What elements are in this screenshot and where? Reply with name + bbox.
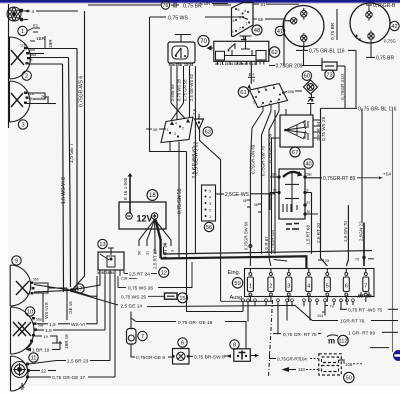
battery <box>119 202 166 229</box>
svg-text:1: 1 <box>167 128 169 132</box>
circled 9 <box>12 256 21 265</box>
svg-text:60: 60 <box>304 74 310 80</box>
svg-text:9: 9 <box>273 84 275 88</box>
wire 0,75GR-GE 8 <box>131 344 135 357</box>
wire 2,50E-WS <box>216 193 225 195</box>
circled 42 <box>390 21 399 30</box>
svg-text:19: 19 <box>44 335 48 339</box>
svg-text:+S4: +S4 <box>383 172 391 177</box>
wire 0,75 GR-RT 75 <box>273 333 281 335</box>
instrument pod left <box>283 6 324 47</box>
feed verticals to fuses <box>312 108 365 266</box>
svg-text:GE 16: GE 16 <box>68 301 73 314</box>
wire 15B <box>282 92 287 94</box>
clock box 67 <box>280 115 313 147</box>
svg-text:3: 3 <box>253 101 255 105</box>
svg-text:18: 18 <box>149 193 156 199</box>
svg-text:4: 4 <box>307 284 310 290</box>
svg-text:5: 5 <box>257 88 259 92</box>
svg-text:1,5 WS-VI 8: 1,5 WS-VI 8 <box>61 177 67 204</box>
svg-text:0,75 GR- GE 16: 0,75 GR- GE 16 <box>178 320 213 326</box>
circled 59 <box>232 278 242 288</box>
lamp 9 terminals <box>31 282 35 295</box>
svg-text:4: 4 <box>175 122 177 126</box>
horn button 63 triangle <box>195 119 204 129</box>
svg-text:1,5: 1,5 <box>49 322 56 328</box>
svg-text:1,0 R 87: 1,0 R 87 <box>264 236 269 253</box>
wire into 76 from left <box>88 4 161 6</box>
svg-text:3: 3 <box>171 250 175 252</box>
svg-text:1,5 GE 7: 1,5 GE 7 <box>69 143 75 163</box>
thick 4RT wire <box>156 220 161 259</box>
svg-text:30 50 15 54: 30 50 15 54 <box>97 271 114 275</box>
svg-text:2,5 RT 20: 2,5 RT 20 <box>316 223 321 243</box>
svg-text:0,75 GN 58: 0,75 GN 58 <box>183 79 188 101</box>
wire 1,0 R 87 <box>269 111 279 266</box>
svg-text:0,75GR-B: 0,75GR-B <box>373 3 396 9</box>
wire 63 down to connector <box>200 129 221 301</box>
section divider dash-dot <box>269 300 273 377</box>
battery plus fan wires <box>139 220 171 247</box>
svg-text:1: 1 <box>249 284 252 290</box>
fusebox output drops <box>243 302 353 334</box>
svg-text:4: 4 <box>209 196 211 200</box>
circled 50 <box>344 372 354 382</box>
svg-text:70: 70 <box>200 38 207 45</box>
wire horn pin to right <box>24 10 31 12</box>
svg-text:0,75 GR-BL 116: 0,75 GR-BL 116 <box>309 49 345 55</box>
svg-text:13: 13 <box>99 242 105 248</box>
wire 0,75GR 210 <box>344 70 346 108</box>
wire 1,5 BR 23 <box>29 361 66 365</box>
circled 10 <box>25 307 34 316</box>
lamp 11 (license plate light) <box>11 356 29 391</box>
circle 76 connector <box>161 1 169 9</box>
svg-text:1,5 RT 68: 1,5 RT 68 <box>306 225 311 245</box>
svg-text:2: 2 <box>239 27 241 31</box>
numbered circle 3 <box>18 120 27 129</box>
svg-text:31: 31 <box>146 251 150 255</box>
arrow right of box 8 <box>250 355 256 357</box>
verticals from box 13 down to rear lamps <box>72 276 115 377</box>
svg-text:2,5 GN 70: 2,5 GN 70 <box>343 221 348 242</box>
bulb bottom <box>301 33 307 44</box>
battery minus terminal <box>126 213 132 219</box>
svg-text:0,75 GR- RT 75: 0,75 GR- RT 75 <box>283 332 317 338</box>
circled 67 <box>290 147 300 157</box>
lamp 9 (tail light) <box>10 265 31 306</box>
svg-text:0,75GR-GN: 0,75GR-GN <box>270 230 275 252</box>
wire 1BR 18 <box>35 336 62 343</box>
wire 0,75 GR-BL 116 under pods <box>303 44 305 50</box>
svg-text:0,75GR 210: 0,75GR 210 <box>340 74 346 100</box>
svg-text:58: 58 <box>153 127 158 132</box>
svg-text:7: 7 <box>141 334 144 340</box>
svg-text:2: 2 <box>25 74 28 80</box>
fuse 6 <box>343 268 349 302</box>
wire to +S4 <box>357 177 381 179</box>
wire 2,5 RT 24 to circled 12 <box>123 270 125 274</box>
box 67 top stubs <box>286 99 315 116</box>
wire GR-ON 69 from 61 to fuse 1 <box>250 111 263 266</box>
circled 40 <box>304 159 313 168</box>
svg-text:42: 42 <box>391 24 397 30</box>
circled 48 <box>252 25 262 35</box>
wire 79/104 bracket <box>322 302 328 316</box>
wire 0,75GR-RT 89 <box>305 177 322 179</box>
numbered circle 2 <box>22 71 31 80</box>
svg-text:0,75 BR-SW 8: 0,75 BR-SW 8 <box>194 355 225 361</box>
svg-text:12B: 12B <box>20 44 27 48</box>
svg-text:1GR-RT 76: 1GR-RT 76 <box>340 319 365 325</box>
svg-text:0,75GR-GE 8: 0,75GR-GE 8 <box>136 355 165 361</box>
svg-text:8: 8 <box>233 342 236 348</box>
wire 0,75 BR bottom right pod <box>370 42 372 57</box>
label 0,75 BR vertical between pods <box>336 9 338 40</box>
svg-text:61: 61 <box>240 90 246 96</box>
wire 1,5 <box>37 329 44 331</box>
svg-text:11: 11 <box>31 355 37 361</box>
wire 0,75 GR-BL 116 lower <box>321 107 358 109</box>
svg-text:1,5: 1,5 <box>45 328 52 334</box>
svg-text:50: 50 <box>346 376 352 382</box>
wires lamp3 pins <box>27 93 56 104</box>
lamp 10 terminals <box>30 317 37 342</box>
svg-text:2,5GE-WS: 2,5GE-WS <box>225 192 250 198</box>
numbered circle 1 <box>18 26 27 35</box>
svg-text:0,75GR-BL 88: 0,75GR-BL 88 <box>268 133 273 163</box>
fuse 3 <box>286 268 292 302</box>
instrument pod right <box>350 3 390 43</box>
svg-text:2Na: 2Na <box>41 95 47 99</box>
svg-text:2,5 GE 14: 2,5 GE 14 <box>121 303 143 309</box>
svg-text:30 1 L 15 54 31 49a 49 R L/E: 30 1 L 15 54 31 49a 49 R L/E <box>215 62 257 66</box>
svg-text:2: 2 <box>182 127 184 131</box>
svg-text:48: 48 <box>254 28 260 34</box>
svg-text:0,75 BR: 0,75 BR <box>376 56 394 62</box>
svg-text:0,75 WS 28: 0,75 WS 28 <box>321 117 326 141</box>
svg-text:0,75GR-ON 69: 0,75GR-ON 69 <box>251 144 256 174</box>
svg-text:1,5 BR 23: 1,5 BR 23 <box>67 359 89 365</box>
wire 1GR-RT 76 <box>312 320 338 322</box>
svg-text:WS-VI: WS-VI <box>71 322 85 328</box>
svg-text:Ausg: Ausg <box>230 295 243 301</box>
svg-text:0,75GR 209: 0,75GR 209 <box>276 64 303 70</box>
ground strap label E 16 1 500 <box>129 174 131 213</box>
ignition starter switch box 13 <box>98 252 124 270</box>
svg-text:58: 58 <box>258 17 264 22</box>
svg-text:6: 6 <box>181 340 184 346</box>
svg-text:1: 1 <box>246 22 248 26</box>
feed vertical +15A <box>361 108 363 222</box>
circled 13 <box>98 239 107 248</box>
wires lamp2 pins to vertical bus <box>27 49 77 65</box>
svg-text:40: 40 <box>305 162 311 168</box>
svg-text:22: 22 <box>41 369 46 374</box>
label 61 wire <box>253 3 259 5</box>
lamp 2 (headlight) <box>10 37 31 79</box>
svg-text:E: E <box>253 78 256 83</box>
wire 0,75 WS 26 <box>117 276 119 288</box>
fuse 7 <box>363 268 369 302</box>
main bus wire upper <box>164 251 373 254</box>
connector symbol <box>171 3 179 8</box>
fuse 2 <box>268 268 274 302</box>
svg-text:15:54: 15:54 <box>184 63 193 67</box>
svg-text:3: 3 <box>174 132 176 136</box>
label 0,75GR-B top right <box>366 5 372 9</box>
svg-text:E 16 1 500: E 16 1 500 <box>123 177 128 200</box>
thick arrow inside 40 <box>283 172 301 177</box>
circled 63 <box>203 127 212 136</box>
circled 12 <box>159 267 169 277</box>
svg-text:1: 1 <box>261 104 263 108</box>
+T mark in right pod <box>355 35 360 42</box>
svg-text:0,75GR-SW 78: 0,75GR-SW 78 <box>261 146 266 176</box>
svg-text:15B: 15B <box>287 89 294 94</box>
svg-text:5: 5 <box>209 190 211 194</box>
svg-text:0,75GR-RT: 0,75GR-RT <box>277 357 301 362</box>
temp sender diamond <box>304 80 318 94</box>
wire 0,75 GR-GE 16 with Y to flasher <box>131 312 136 329</box>
wire from 40 left pins <box>270 177 279 210</box>
ground stubs below 61 <box>263 103 279 111</box>
svg-text:2: 2 <box>252 96 254 100</box>
svg-text:6: 6 <box>233 19 235 23</box>
svg-text:105: 105 <box>345 362 353 367</box>
svg-text:0,75 RT -WS 75: 0,75 RT -WS 75 <box>348 308 383 314</box>
headlight switch 48 trapezoid <box>232 3 254 37</box>
svg-text:12: 12 <box>161 270 167 276</box>
svg-text:58: 58 <box>243 199 247 203</box>
svg-text:2,5GN 22: 2,5GN 22 <box>359 221 364 241</box>
svg-text:112: 112 <box>339 339 348 345</box>
flasher relay 61 parallelogram <box>250 84 288 108</box>
svg-text:56: 56 <box>206 225 212 231</box>
heated window dashed box 50 <box>319 354 342 375</box>
main bus wire thick 4RT <box>161 256 307 268</box>
svg-text:0,75 WS: 0,75 WS <box>168 16 188 22</box>
dimmer switch trapezoid <box>161 117 193 143</box>
box62 bottom pins <box>218 61 264 64</box>
svg-text:0, 75 GR- BL 116: 0, 75 GR- BL 116 <box>358 107 397 113</box>
wire 62 to 61 <box>250 65 252 84</box>
wires ignition to dimmer switch <box>171 66 190 121</box>
wire pod left to down <box>284 21 291 66</box>
top blue header bar <box>0 0 400 3</box>
svg-text:m: m <box>328 337 335 346</box>
svg-text:29: 29 <box>325 259 329 263</box>
wire -22- <box>30 370 40 372</box>
lamp 3 (headlight) <box>10 81 30 122</box>
junction dot 17 <box>70 288 74 292</box>
box 13 bottom pins <box>100 270 120 276</box>
lamp 2 terminals <box>24 47 30 64</box>
svg-text:2: 2 <box>269 284 272 290</box>
circled 61 <box>238 87 248 97</box>
svg-text:3: 3 <box>287 284 290 290</box>
svg-text:15: 15 <box>179 296 185 302</box>
svg-text:30: 30 <box>307 210 311 214</box>
wire 0,75 WS to box 48 <box>150 16 167 18</box>
svg-text:3: 3 <box>21 122 24 128</box>
wire GR-SW 78 from 61 <box>262 111 272 254</box>
svg-text:58c: 58c <box>307 173 313 177</box>
connector KS bracket <box>27 28 40 32</box>
svg-text:5: 5 <box>326 284 329 290</box>
svg-text:21B: 21B <box>121 277 128 281</box>
svg-text:2: 2 <box>209 209 211 213</box>
svg-text:9: 9 <box>15 258 18 264</box>
wire 1 BR 19 with arrow <box>26 341 33 350</box>
svg-text:1: 1 <box>21 29 24 35</box>
svg-text:0,75 WS 26: 0,75 WS 26 <box>128 286 153 292</box>
circled 8 <box>230 340 239 349</box>
box 40 pins <box>278 176 306 215</box>
svg-text:2,50E 84: 2,50E 84 <box>170 84 175 101</box>
svg-text:73: 73 <box>326 72 332 78</box>
left diagram border <box>8 4 10 128</box>
svg-text:50: 50 <box>138 251 142 255</box>
svg-text:1 GR- RT 99: 1 GR- RT 99 <box>348 331 375 337</box>
wire 0,75GR-RT 104 <box>270 352 277 359</box>
svg-text:104: 104 <box>300 357 308 362</box>
fuel gauge box 73 <box>322 62 337 70</box>
svg-text:0,75 GN 59: 0,75 GN 59 <box>177 188 183 214</box>
svg-text:2,5 GE-WS 62: 2,5 GE-WS 62 <box>192 146 198 178</box>
svg-text:3: 3 <box>209 202 211 206</box>
wire 0,75 GR-GE 17 <box>29 376 51 378</box>
ground tick below 48 <box>241 37 247 40</box>
long vertical wire GR-WS <box>72 11 85 290</box>
svg-text:87: 87 <box>307 201 311 205</box>
bulb top right pod <box>366 9 372 21</box>
svg-text:79: 79 <box>330 304 334 308</box>
bus stub <box>274 260 287 262</box>
circled 112 <box>338 335 348 345</box>
svg-text:4: 4 <box>244 9 246 13</box>
bulb top <box>301 8 307 20</box>
svg-text:2,5 RT 24: 2,5 RT 24 <box>129 272 150 278</box>
fuse box <box>245 269 375 297</box>
switch box 8 <box>234 349 251 362</box>
circled 62 <box>269 47 279 57</box>
circled 11 <box>29 353 38 362</box>
relay box 62 <box>214 41 269 61</box>
wire from 40 bottom to 311 <box>305 193 318 215</box>
svg-text:104: 104 <box>317 314 323 318</box>
svg-text:4: 4 <box>269 102 271 106</box>
circled 18 <box>147 190 158 201</box>
connector labels on bus <box>318 259 324 261</box>
svg-text:4B: 4B <box>254 203 258 207</box>
wires below dimmer <box>170 66 195 312</box>
horn motor M <box>7 7 23 21</box>
indicator lamp 6 <box>173 349 190 365</box>
circled 60 <box>302 71 311 80</box>
svg-text:0,75 WS 28: 0,75 WS 28 <box>177 78 182 101</box>
wire 0,75 RT-WS 75 <box>340 308 347 310</box>
ground below diamond <box>309 94 315 101</box>
fuse 5 <box>324 268 330 302</box>
circled 70 <box>198 35 209 46</box>
svg-text:1BR: 1BR <box>48 39 53 48</box>
svg-text:1BR: 1BR <box>36 36 46 41</box>
svg-text:5: 5 <box>238 8 240 12</box>
svg-text:110: 110 <box>298 367 306 372</box>
wire 2,5 GE 14 <box>72 292 118 306</box>
legend rows below 40 <box>286 224 299 230</box>
svg-text:2,5 RT 27: 2,5 RT 27 <box>153 249 158 269</box>
wire right of 6 <box>190 355 194 357</box>
svg-text:31: 31 <box>29 58 33 62</box>
svg-text:7: 7 <box>364 284 367 290</box>
arrow into box 62 <box>208 46 213 50</box>
wire horn pin2 <box>24 19 29 21</box>
svg-text:Eing.: Eing. <box>228 270 241 276</box>
svg-text:58b: 58b <box>271 173 277 177</box>
ignition lock box 70 <box>168 35 195 64</box>
circled 15 <box>178 293 188 303</box>
label -105 <box>339 360 345 364</box>
circled 73 <box>325 70 334 79</box>
svg-text:76: 76 <box>163 3 169 9</box>
svg-text:,5 BR: ,5 BR <box>199 1 211 6</box>
svg-text:12V: 12V <box>137 214 153 224</box>
svg-text:0,75 GR-GE 17: 0,75 GR-GE 17 <box>52 375 85 381</box>
fan from junction to lamp 9 <box>34 285 97 297</box>
circled 41 <box>275 26 284 35</box>
circled 6 <box>178 338 187 347</box>
svg-text:2,5: 2,5 <box>192 108 197 115</box>
fuse 1 <box>247 268 253 302</box>
wire vertical from 0,75WS down <box>150 17 187 152</box>
wire Ausg to divider <box>221 300 272 302</box>
resistor box 15 <box>165 293 178 299</box>
svg-text:0,75 WS 25: 0,75 WS 25 <box>121 295 146 301</box>
battery plus terminal <box>151 213 157 219</box>
svg-text:67: 67 <box>292 150 298 156</box>
circled 17 <box>75 284 84 293</box>
svg-text:56b: 56b <box>33 278 39 282</box>
ground hatch below fuse 7 <box>358 292 364 298</box>
svg-text:1BR 18: 1BR 18 <box>64 334 69 349</box>
right page border line <box>392 108 394 352</box>
lamp 10 (tail light double) <box>11 307 35 354</box>
svg-text:WS-VI 8: WS-VI 8 <box>44 302 49 319</box>
flasher unit 7 <box>127 329 137 345</box>
svg-text:0,75GR-WS 6: 0,75GR-WS 6 <box>78 76 84 107</box>
circled 56 <box>204 222 213 231</box>
svg-text:0,75GR-RT 89: 0,75GR-RT 89 <box>323 176 356 182</box>
circled 7 <box>138 331 147 340</box>
steering column connector 56 <box>202 185 216 221</box>
wire to right edge <box>370 347 389 349</box>
wire 58 into dimmer <box>146 128 152 130</box>
long vertical wire WS-VI <box>63 64 64 292</box>
wire left y=311.5 <box>186 311 243 313</box>
svg-text:KS: KS <box>33 24 38 28</box>
svg-text:59: 59 <box>234 281 240 287</box>
svg-text:1: 1 <box>209 215 211 219</box>
svg-text:6: 6 <box>265 86 267 90</box>
long vertical wire GE <box>69 58 71 288</box>
svg-text:4: 4 <box>32 9 35 14</box>
svg-text:62: 62 <box>271 50 277 56</box>
svg-text:0,75G: 0,75G <box>384 39 397 44</box>
wire 0,75GR 209 <box>269 65 275 67</box>
svg-text:61: 61 <box>261 2 267 7</box>
